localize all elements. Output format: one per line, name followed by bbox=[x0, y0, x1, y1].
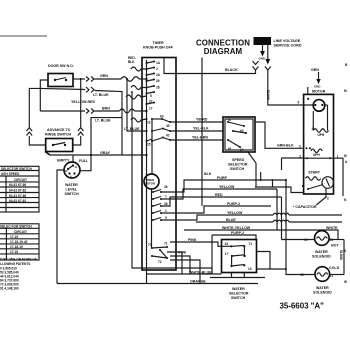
line voltage service cord block bbox=[254, 37, 272, 45]
wire bbox=[161, 206, 271, 213]
LT BLUE wire upper bbox=[40, 88, 85, 89]
wire bbox=[285, 180, 287, 269]
wire bbox=[164, 58, 256, 74]
wire bbox=[281, 158, 283, 170]
wire bbox=[329, 239, 344, 241]
wire bbox=[231, 256, 233, 266]
svg-text:FULL: FULL bbox=[79, 159, 89, 163]
wire bbox=[152, 118, 162, 120]
wire bbox=[232, 255, 245, 256]
junction dot bbox=[146, 87, 148, 89]
wire bbox=[91, 77, 94, 82]
junction dot bbox=[146, 93, 148, 95]
wire bbox=[316, 197, 326, 206]
motor ground arrowhead bbox=[316, 79, 320, 84]
svg-text:PINK: PINK bbox=[188, 238, 197, 242]
junction dot bbox=[146, 103, 148, 105]
junction dot bbox=[159, 249, 161, 251]
GRN-BLK to motor bbox=[255, 122, 304, 148]
svg-text:71: 71 bbox=[249, 242, 253, 246]
junction dot bbox=[152, 198, 154, 200]
wire bbox=[327, 105, 329, 131]
wire bbox=[139, 78, 147, 80]
svg-text:CIRCUIT: CIRCUIT bbox=[14, 230, 27, 234]
wire bbox=[243, 273, 245, 278]
wire bbox=[95, 78, 122, 80]
svg-text:UPH: UPH bbox=[313, 153, 320, 157]
svg-text:SWITCH: SWITCH bbox=[230, 167, 245, 171]
wire bbox=[312, 111, 314, 131]
wire bbox=[73, 136, 81, 145]
svg-text:WATER: WATER bbox=[65, 183, 78, 187]
junction dot bbox=[329, 157, 331, 159]
junction dot bbox=[151, 247, 153, 249]
wires to speed selector bbox=[170, 121, 223, 123]
wire bbox=[121, 77, 139, 82]
junction dot bbox=[243, 245, 245, 247]
wire bbox=[78, 128, 84, 132]
junction dot bbox=[54, 79, 56, 81]
svg-text:71: 71 bbox=[164, 242, 168, 246]
connector chevron bbox=[265, 67, 271, 71]
wire bbox=[289, 214, 342, 216]
LT BLUE loop rectangle bbox=[91, 118, 122, 155]
junction dot bbox=[307, 98, 309, 100]
svg-text:26: 26 bbox=[156, 79, 160, 83]
wire bbox=[0, 202, 39, 204]
svg-text:GRAY: GRAY bbox=[100, 151, 111, 155]
svg-text:SPEED: SPEED bbox=[232, 158, 245, 162]
wire bbox=[80, 155, 91, 171]
svg-text:BRN: BRN bbox=[102, 107, 110, 111]
wire bbox=[0, 227, 39, 229]
svg-text:TIMER: TIMER bbox=[152, 41, 164, 45]
component circle bbox=[64, 162, 80, 178]
junction dot bbox=[314, 104, 316, 106]
svg-text:PURP: PURP bbox=[217, 176, 228, 180]
wire bbox=[0, 248, 39, 250]
junction dot bbox=[151, 140, 153, 142]
wire bbox=[289, 221, 342, 223]
wire bundle bbox=[161, 180, 286, 192]
water selector switch bbox=[222, 240, 257, 273]
wire bbox=[152, 256, 167, 258]
svg-text:3: 3 bbox=[299, 145, 301, 149]
wire bbox=[228, 122, 244, 126]
wire bbox=[121, 118, 123, 155]
wire from top edge to right (to purple) bbox=[201, 58, 203, 207]
svg-text:MOTOR: MOTOR bbox=[145, 182, 155, 186]
svg-text:64-61 67-62: 64-61 67-62 bbox=[9, 199, 26, 203]
wire bbox=[228, 140, 240, 147]
wire bbox=[95, 91, 123, 118]
svg-text:2A: 2A bbox=[156, 73, 161, 77]
wire bbox=[276, 189, 278, 230]
wire bbox=[196, 221, 273, 223]
wire bbox=[231, 265, 244, 266]
junction dot bbox=[232, 130, 234, 132]
junction dot bbox=[152, 191, 154, 193]
wire bbox=[304, 157, 334, 159]
junction dot bbox=[126, 78, 128, 80]
svg-text:4: 4 bbox=[312, 127, 314, 131]
component box bbox=[48, 74, 73, 87]
wire bbox=[281, 197, 283, 240]
svg-text:GND: GND bbox=[314, 85, 320, 89]
junction dot bbox=[72, 164, 74, 166]
svg-text:SERVICE CORD: SERVICE CORD bbox=[274, 43, 302, 47]
svg-text:17-18: 17-18 bbox=[10, 250, 18, 254]
svg-text:RED: RED bbox=[215, 193, 223, 197]
svg-text:43: 43 bbox=[225, 242, 229, 246]
svg-text:START: START bbox=[308, 171, 321, 175]
wire bbox=[260, 172, 262, 180]
wire bbox=[307, 87, 309, 94]
svg-text:SELECTOR SWITCH: SELECTOR SWITCH bbox=[1, 167, 32, 171]
wire bbox=[311, 149, 322, 153]
hot solenoid bbox=[282, 239, 315, 241]
svg-text:19: 19 bbox=[248, 267, 252, 271]
wire bbox=[91, 109, 94, 114]
svg-text:64-61 67-62: 64-61 67-62 bbox=[9, 189, 26, 193]
wire bbox=[243, 246, 245, 256]
wire bbox=[273, 220, 289, 222]
svg-text:9: 9 bbox=[165, 216, 167, 220]
timer outer box bbox=[142, 58, 176, 271]
junction dot bbox=[285, 268, 287, 270]
junction dot bbox=[321, 104, 323, 106]
svg-text:ADVANCE TO: ADVANCE TO bbox=[47, 128, 71, 132]
svg-text:WATER: WATER bbox=[316, 286, 329, 290]
junction dot bbox=[239, 146, 241, 148]
white-blue / orange bbox=[147, 273, 222, 275]
svg-text:SELEC FOR SWITCH: SELEC FOR SWITCH bbox=[0, 225, 32, 229]
svg-text:YELLOW: YELLOW bbox=[219, 185, 235, 189]
wire bbox=[131, 86, 147, 90]
wire bbox=[27, 132, 33, 136]
junction dot bbox=[131, 91, 133, 93]
patent text bbox=[0, 258, 37, 291]
terminal 2 / 1 bbox=[306, 157, 308, 159]
svg-text:CIRCUIT: CIRCUIT bbox=[14, 178, 27, 182]
junction dot bbox=[152, 205, 154, 207]
svg-text:BLUE: BLUE bbox=[226, 218, 236, 222]
svg-text:17-19: 17-19 bbox=[10, 235, 18, 239]
BRN wire bbox=[40, 110, 85, 112]
wire bbox=[45, 152, 50, 156]
svg-text:M: M bbox=[344, 89, 347, 93]
svg-text:M: M bbox=[228, 118, 231, 122]
svg-text:WATER: WATER bbox=[232, 287, 245, 291]
start switch circle bbox=[322, 177, 334, 189]
svg-text:2: 2 bbox=[327, 197, 329, 201]
wire bbox=[0, 238, 39, 240]
right edge cut labels bbox=[344, 63, 348, 284]
svg-text:28: 28 bbox=[156, 86, 160, 90]
svg-text:LT. BLUE: LT. BLUE bbox=[95, 119, 111, 123]
junction dot bbox=[243, 125, 245, 127]
wire bbox=[120, 109, 135, 113]
wire bbox=[86, 87, 89, 93]
wire bbox=[29, 88, 40, 127]
svg-text:38: 38 bbox=[164, 202, 168, 206]
svg-text:SELECTOR: SELECTOR bbox=[228, 163, 248, 167]
timer inner rail bbox=[146, 60, 148, 284]
svg-text:LEVEL: LEVEL bbox=[66, 188, 78, 192]
svg-text:LLOWING PATENTS: LLOWING PATENTS bbox=[0, 262, 30, 266]
svg-text:UPH: UPH bbox=[318, 133, 325, 137]
svg-text:36: 36 bbox=[164, 185, 168, 189]
svg-text:70: 70 bbox=[148, 243, 152, 247]
junction dot bbox=[162, 137, 164, 139]
junction dot bbox=[230, 245, 232, 247]
tables left bbox=[0, 166, 39, 212]
junction dot bbox=[307, 188, 309, 190]
svg-text:SELECTOR: SELECTOR bbox=[229, 292, 249, 296]
svg-text:72: 72 bbox=[158, 260, 162, 264]
svg-text:BLK: BLK bbox=[204, 172, 212, 176]
junction dot bbox=[64, 144, 66, 146]
wire bbox=[151, 189, 154, 248]
junction dot bbox=[227, 139, 229, 141]
wire bbox=[326, 179, 330, 187]
svg-text:YELLOW-RED: YELLOW-RED bbox=[71, 100, 95, 104]
ground arrowhead bbox=[265, 59, 270, 65]
junction dot bbox=[145, 78, 147, 80]
wire bbox=[210, 277, 265, 279]
junction dot bbox=[65, 79, 67, 81]
purp-2 wire to selector top bbox=[212, 235, 256, 240]
svg-text:GRN: GRN bbox=[311, 68, 319, 72]
wire bbox=[337, 230, 339, 240]
junction dot bbox=[166, 257, 168, 259]
svg-text:WHITE-YELLOW: WHITE-YELLOW bbox=[222, 226, 251, 230]
junction dot bbox=[285, 179, 287, 181]
component box bbox=[0, 224, 39, 260]
component box bbox=[225, 119, 253, 150]
svg-text:RINSE SWITCH: RINSE SWITCH bbox=[45, 133, 72, 137]
ground lead wire bbox=[267, 45, 269, 59]
svg-text:S: S bbox=[344, 249, 346, 253]
motor box bbox=[304, 94, 334, 194]
svg-text:YB-RD: YB-RD bbox=[196, 118, 208, 122]
junction dot bbox=[80, 78, 82, 80]
junction dot bbox=[243, 264, 245, 266]
timer right contacts 63 49 42 bbox=[151, 115, 171, 143]
ground lead wire bbox=[262, 45, 264, 51]
stray scan line top left bbox=[0, 35, 47, 37]
wire bbox=[170, 260, 200, 284]
svg-text:64: 64 bbox=[240, 148, 244, 152]
ground arrowhead bbox=[260, 51, 265, 57]
svg-text:YEL-BLK: YEL-BLK bbox=[193, 127, 209, 131]
wire bbox=[170, 139, 223, 141]
wire bbox=[317, 273, 328, 276]
wire bbox=[257, 252, 271, 270]
wire bbox=[78, 132, 84, 136]
junction dot bbox=[145, 130, 147, 132]
svg-text:LT. BLUE: LT. BLUE bbox=[93, 93, 109, 97]
svg-text:64-61 67-66: 64-61 67-66 bbox=[9, 183, 26, 187]
junction dot bbox=[151, 130, 153, 132]
timer upper contacts bbox=[146, 61, 161, 147]
svg-text:17-18-19-42: 17-18-19-42 bbox=[10, 240, 28, 244]
junction dot bbox=[152, 212, 154, 214]
svg-text:63: 63 bbox=[160, 115, 164, 119]
svg-text:27: 27 bbox=[149, 100, 153, 104]
wire bbox=[0, 181, 39, 183]
advance switch right drop bbox=[80, 79, 82, 127]
junction dot bbox=[145, 110, 147, 112]
junction dot bbox=[231, 255, 233, 257]
wire bbox=[86, 109, 89, 114]
timer left entry stubs bbox=[131, 67, 147, 71]
wire bbox=[135, 110, 147, 112]
bottom timer cluster bbox=[148, 242, 187, 265]
junction dot bbox=[230, 265, 232, 267]
wire bbox=[29, 136, 45, 145]
pink wire to selector bbox=[170, 242, 231, 246]
junction dot bbox=[161, 118, 163, 120]
second LT BLUE wire bbox=[127, 79, 147, 131]
svg-text:49: 49 bbox=[166, 124, 170, 128]
svg-text:42: 42 bbox=[166, 134, 170, 138]
svg-text:COLD: COLD bbox=[329, 266, 340, 270]
GRAY wire bbox=[50, 154, 147, 156]
selector blade to lower bundle bbox=[248, 152, 256, 187]
wire bbox=[151, 119, 153, 174]
wire bbox=[160, 250, 167, 258]
wire bbox=[170, 256, 190, 274]
svg-text:1: 1 bbox=[165, 209, 167, 213]
svg-text:M: M bbox=[344, 154, 347, 158]
wire bbox=[343, 240, 345, 275]
wire bbox=[233, 131, 246, 133]
wire bbox=[152, 247, 167, 248]
svg-text:13: 13 bbox=[147, 121, 151, 125]
wire bbox=[131, 118, 147, 122]
GRN wire bbox=[73, 78, 85, 80]
WHITE drop to motor bbox=[268, 70, 314, 105]
svg-text:17: 17 bbox=[225, 252, 229, 256]
svg-text:LINE VOLTAGE: LINE VOLTAGE bbox=[274, 39, 301, 43]
wire bbox=[0, 170, 39, 172]
wire bbox=[170, 130, 223, 132]
junction dot bbox=[67, 168, 69, 170]
svg-text:PURP-2: PURP-2 bbox=[227, 202, 240, 206]
wire bbox=[5, 228, 7, 260]
wire bbox=[0, 207, 39, 209]
wire bbox=[0, 243, 39, 245]
wire bbox=[0, 175, 39, 177]
long vertical x132 bbox=[132, 92, 212, 274]
component circle bbox=[313, 100, 325, 112]
svg-text:SOLENOID: SOLENOID bbox=[312, 255, 331, 259]
svg-text:HOT: HOT bbox=[331, 244, 339, 248]
junction dot bbox=[309, 147, 311, 149]
wire bbox=[308, 185, 323, 190]
junction dot bbox=[146, 74, 148, 76]
svg-text:YEL-BRN: YEL-BRN bbox=[192, 136, 208, 140]
junction dot bbox=[272, 179, 274, 181]
wire bbox=[0, 197, 39, 199]
wire bbox=[95, 110, 120, 112]
svg-text:WHITE: WHITE bbox=[266, 90, 270, 100]
svg-text:2: 2 bbox=[156, 67, 158, 71]
6 UPH winding / terminal 3 bbox=[306, 147, 308, 149]
junction dot bbox=[162, 128, 164, 130]
wire bbox=[231, 245, 244, 248]
wire bbox=[231, 273, 233, 278]
junction dot bbox=[227, 121, 229, 123]
wire bbox=[334, 158, 344, 196]
svg-text:91 4,148,163: 91 4,148,163 bbox=[0, 287, 19, 291]
speed selector switch bbox=[223, 117, 255, 152]
cluster drops bbox=[167, 252, 182, 274]
wire bbox=[55, 78, 66, 81]
junction dot bbox=[90, 154, 92, 156]
junction dot bbox=[244, 255, 246, 257]
svg-text:WATER: WATER bbox=[315, 250, 328, 254]
svg-text:MOTOR: MOTOR bbox=[312, 90, 326, 94]
verticals right bundle bbox=[272, 180, 274, 187]
svg-text:1A: 1A bbox=[156, 61, 161, 65]
wire bbox=[306, 177, 321, 181]
wire bbox=[330, 274, 345, 276]
junction dot bbox=[146, 80, 148, 82]
svg-text:63: 63 bbox=[240, 129, 244, 133]
door loop left bbox=[40, 80, 48, 111]
connector chevron bbox=[253, 61, 259, 65]
svg-text:DIAGRAM: DIAGRAM bbox=[204, 47, 243, 56]
wire bbox=[91, 87, 94, 93]
svg-text:SWITCH: SWITCH bbox=[65, 192, 80, 196]
svg-text:BLACK: BLACK bbox=[225, 68, 238, 72]
svg-text:EMPTY: EMPTY bbox=[57, 159, 70, 163]
svg-text:YELLOW: YELLOW bbox=[227, 211, 243, 215]
wire bbox=[0, 186, 39, 188]
junction dot bbox=[146, 68, 148, 70]
wire bbox=[126, 95, 147, 99]
svg-text:W: W bbox=[344, 280, 347, 284]
svg-text:BLK: BLK bbox=[128, 60, 135, 64]
junction dot bbox=[245, 132, 247, 134]
wire bbox=[57, 170, 64, 284]
wire bbox=[161, 189, 277, 199]
wire bbox=[161, 215, 273, 220]
wire bbox=[161, 197, 282, 206]
cold solenoid bbox=[315, 267, 330, 282]
junction dot bbox=[152, 219, 154, 221]
svg-text:* CAPACITOR: * CAPACITOR bbox=[293, 205, 317, 209]
svg-text:GRN: GRN bbox=[100, 74, 108, 78]
wire bbox=[318, 72, 320, 79]
component box bbox=[0, 166, 39, 212]
4 UPH winding bbox=[313, 129, 328, 133]
component box bbox=[46, 139, 73, 152]
wire bbox=[53, 143, 65, 146]
junction dot bbox=[260, 179, 262, 181]
svg-text:WHITE: WHITE bbox=[340, 250, 344, 260]
svg-text:15: 15 bbox=[147, 143, 151, 147]
svg-text:SWITCH: SWITCH bbox=[231, 296, 246, 300]
svg-text:61: 61 bbox=[228, 147, 232, 151]
svg-text:ORANGE: ORANGE bbox=[190, 280, 206, 284]
wire bbox=[286, 269, 315, 275]
wire bbox=[211, 235, 213, 274]
component circle bbox=[315, 231, 330, 246]
wire bbox=[57, 283, 258, 285]
